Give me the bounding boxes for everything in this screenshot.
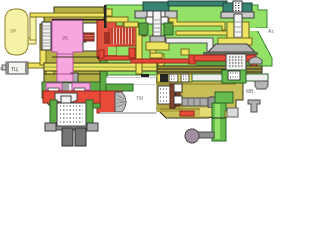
brown bars <box>170 84 175 108</box>
pink stem through band <box>57 74 73 82</box>
red pipe elbow up to band <box>189 55 196 64</box>
white dotted flange on joint <box>228 71 240 80</box>
TM pipe green top wall <box>106 84 133 91</box>
equalizing chamber UK pink <box>52 19 83 81</box>
yellow pipe V1 right upper <box>169 18 225 30</box>
black divider olive-green <box>104 5 107 28</box>
piston guide between arcs <box>59 83 72 92</box>
pink stem of UK <box>57 54 73 81</box>
white dotted block on strip 2 <box>181 74 189 82</box>
V1 side spring blocks <box>146 17 153 24</box>
V1 yellow base <box>146 42 169 50</box>
yellow pipe V1 down <box>150 50 156 58</box>
red bits bottom <box>180 111 194 116</box>
yellow elbow V1 base to right riser <box>150 53 162 58</box>
V2 center spring cylinder <box>233 1 242 14</box>
green window in red <box>108 47 116 55</box>
bar divider line <box>212 117 226 119</box>
grey fitting below body right <box>248 100 260 112</box>
white pipe W1 <box>166 38 213 52</box>
red check valve mass <box>97 20 137 57</box>
TM red interior <box>97 91 122 113</box>
black flange left <box>141 74 149 82</box>
dark ledge under bell <box>203 52 258 55</box>
spring chamber walls <box>50 100 57 128</box>
body upper strip yellow <box>157 74 192 82</box>
V1 disc <box>150 36 165 42</box>
interior: white dotted blocks left <box>158 86 170 104</box>
handle rod <box>198 132 214 138</box>
yellow channel in olive below stack <box>40 50 46 65</box>
dark khaki band assembly top <box>157 66 262 74</box>
white stem down <box>61 96 71 108</box>
white pipe W2 <box>192 74 268 81</box>
white dotted block on strip <box>169 74 178 82</box>
valve seat dark red striped <box>84 33 94 41</box>
dark red detail <box>104 32 110 44</box>
white valve center <box>55 93 77 103</box>
white H block right of UK <box>83 23 97 51</box>
white half discs under arcs <box>48 88 59 93</box>
black line under red mass <box>97 57 110 59</box>
grey shaft <box>182 98 209 106</box>
yellow pipe top from olive <box>106 17 128 27</box>
green TM pipe left wall <box>100 58 107 92</box>
handle ball <box>185 129 199 143</box>
green main body field <box>106 5 272 75</box>
V2 stem <box>234 14 242 44</box>
red thick band under bell <box>194 55 256 61</box>
yellow nub right of bar <box>225 111 231 117</box>
hex fitting on W2 <box>255 81 268 89</box>
pipe UR horizontal to olive <box>30 13 106 17</box>
top dark strip <box>168 1 227 6</box>
grey feet <box>62 128 73 146</box>
TM pipe interior <box>106 84 156 113</box>
pink arcs <box>46 83 62 90</box>
body left section darker <box>157 82 183 112</box>
pipe UR elbow <box>28 38 36 44</box>
feet base plate <box>56 126 87 130</box>
green vertical bar <box>212 103 226 141</box>
lower-left valve: olive band <box>44 74 100 82</box>
black flange right <box>160 74 168 82</box>
yellow elbow left of band <box>181 49 189 55</box>
red band <box>43 91 100 103</box>
black hairline under olive top <box>52 19 104 21</box>
pipe UR vertical <box>30 13 36 40</box>
brake cylinder TC <box>2 65 7 70</box>
grey half disc on red <box>249 57 262 64</box>
yellow long pipe y32 <box>176 31 246 35</box>
red pipe elbow up <box>99 50 104 58</box>
V1 dark green blocks <box>139 23 148 35</box>
V2 flange <box>221 12 254 18</box>
white slot right <box>250 28 267 31</box>
TM bottom grey line <box>100 112 156 114</box>
yellow riser to body right <box>158 54 164 74</box>
olive channel hairlines <box>44 57 100 74</box>
olive block body around UK <box>40 7 106 75</box>
V2 yellow surround <box>218 38 252 45</box>
yellow channel band lower <box>44 63 157 71</box>
valve V2 teal caps <box>223 3 234 12</box>
side bolts <box>45 123 56 131</box>
green block top of bar <box>215 92 233 103</box>
TM piston dome <box>115 92 126 112</box>
small dotted blocks <box>174 84 182 92</box>
yellow square on divider <box>105 9 112 16</box>
red pipe segment a <box>99 56 135 60</box>
softening film <box>0 0 280 148</box>
top valve V1 teal cap <box>143 2 169 11</box>
red elbow down right <box>251 61 257 72</box>
grey cap on bar <box>227 108 238 117</box>
red pipe segment b <box>131 59 191 63</box>
lower-left valve green body <box>42 82 100 113</box>
TM pipe white band top <box>106 77 156 84</box>
V2 grey bell <box>208 44 255 52</box>
V1 flange blocks <box>135 11 147 18</box>
green joint block on W2 <box>222 70 246 83</box>
body hairlines <box>157 84 236 109</box>
piston stack left of UK <box>42 22 51 50</box>
reducer spring coils <box>109 28 133 44</box>
reservoir UR capsule <box>5 9 28 55</box>
V2 white spring box <box>226 54 246 71</box>
lower assembly body khaki <box>156 80 243 118</box>
red stub reducer to pipe <box>129 48 135 58</box>
pipe TC to valve <box>28 63 46 68</box>
V2 yellow channels <box>227 22 234 44</box>
bolt on band <box>71 73 78 82</box>
dark green strip under band <box>196 61 252 66</box>
spring chamber interior <box>57 103 86 128</box>
pipe TC elbow down <box>44 63 54 76</box>
yellow riser to body left <box>136 24 142 74</box>
lighter yellow strip in body <box>200 108 236 116</box>
V1 stem <box>153 11 161 42</box>
yellow branch to V1 riser <box>124 22 138 27</box>
shaft knob <box>208 97 217 108</box>
red stub box to V1 <box>137 31 146 36</box>
